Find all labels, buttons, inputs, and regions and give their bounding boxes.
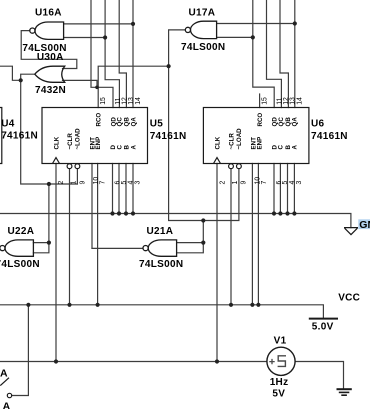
svg-text:~CLR: ~CLR bbox=[67, 133, 74, 150]
NAND gate U21A bbox=[143, 240, 177, 256]
wire QD U5 net vertical bbox=[91, 0, 113, 108]
svg-text:74161N: 74161N bbox=[1, 131, 38, 142]
svg-text:14: 14 bbox=[296, 97, 303, 105]
wire U6 C pin to bus bbox=[279, 164, 281, 214]
voltage source V1 bbox=[267, 347, 295, 375]
svg-text:15: 15 bbox=[261, 97, 268, 105]
wire U5 ~CLR down to VCC rail bbox=[69, 169, 71, 305]
svg-text:1: 1 bbox=[232, 181, 239, 185]
svg-text:A: A bbox=[130, 145, 137, 150]
wire U6 ENT down to VCC rail bbox=[251, 164, 253, 305]
svg-text:VCC: VCC bbox=[338, 293, 360, 304]
svg-text:~LOAD: ~LOAD bbox=[236, 128, 243, 150]
svg-text:ENP: ENP bbox=[95, 137, 102, 150]
wire U30A output down to LOAD net bbox=[21, 74, 78, 184]
svg-text:U22A: U22A bbox=[8, 226, 35, 237]
svg-text:7: 7 bbox=[100, 181, 107, 185]
wire U6 CLK down to V1 line bbox=[216, 164, 218, 362]
NAND gate U22A bbox=[0, 240, 33, 256]
wire U21A inputs branch bbox=[177, 221, 204, 253]
svg-text:GN: GN bbox=[359, 219, 370, 231]
wire QB U5 net vertical bbox=[119, 0, 126, 108]
svg-text:U17A: U17A bbox=[189, 7, 216, 18]
svg-text:U5: U5 bbox=[150, 119, 164, 130]
svg-text:9: 9 bbox=[241, 181, 248, 185]
svg-text:QB: QB bbox=[123, 117, 130, 127]
svg-text:RCO: RCO bbox=[257, 113, 264, 127]
wire U30A input 2 to QD jog bbox=[63, 80, 98, 87]
svg-text:C: C bbox=[278, 145, 285, 150]
svg-text:3: 3 bbox=[134, 181, 141, 185]
wire RCO U6 stub bbox=[259, 94, 261, 108]
counter U5 bbox=[42, 108, 148, 169]
wire QC U6 net vertical bbox=[267, 0, 282, 108]
svg-text:1: 1 bbox=[70, 181, 77, 185]
svg-text:U30A: U30A bbox=[37, 52, 64, 63]
wire U21A output to U5 ENT bbox=[92, 247, 143, 249]
wire U16A output to U30A input 1 bbox=[21, 31, 77, 69]
wire U6 D pin to bus bbox=[273, 164, 275, 214]
svg-text:U4: U4 bbox=[1, 119, 15, 130]
svg-text:U16A: U16A bbox=[35, 7, 62, 18]
svg-text:V1: V1 bbox=[274, 336, 287, 347]
svg-text:74161N: 74161N bbox=[311, 131, 348, 142]
svg-text:74LS00N: 74LS00N bbox=[139, 259, 183, 270]
wire U6 ~LOAD pin drop bbox=[203, 169, 239, 221]
svg-text:QA: QA bbox=[130, 117, 137, 127]
svg-text:5.0V: 5.0V bbox=[312, 321, 334, 332]
wire U5 A pin to bus bbox=[132, 164, 134, 214]
svg-text:U21A: U21A bbox=[147, 226, 174, 237]
wire U17A input 2 bbox=[217, 36, 253, 38]
wire U6 B pin to bus bbox=[287, 164, 289, 214]
wire U5 B pin to bus bbox=[125, 164, 127, 214]
svg-text:74161N: 74161N bbox=[150, 131, 187, 142]
NAND gate U16A bbox=[30, 22, 64, 39]
wire U17A output down bbox=[169, 30, 204, 221]
wire QD U6 net vertical bbox=[253, 0, 274, 108]
svg-text:CLK: CLK bbox=[53, 136, 60, 149]
NAND gate U17A bbox=[185, 21, 216, 38]
wire QA U6 net vertical bbox=[294, 0, 296, 108]
wire U5 C pin to bus bbox=[118, 164, 120, 214]
svg-text:7: 7 bbox=[261, 181, 268, 185]
wire U16A input 2 bbox=[64, 37, 106, 39]
wire U5 CLK down to V1 line bbox=[55, 164, 57, 362]
svg-text:74LS00N: 74LS00N bbox=[0, 259, 40, 270]
wire U17A input 1 bbox=[217, 23, 295, 25]
OR gate U30A bbox=[35, 66, 65, 82]
svg-text:1Hz: 1Hz bbox=[270, 377, 289, 388]
svg-text:RCO: RCO bbox=[96, 113, 103, 127]
wire VCC rail bbox=[0, 305, 323, 318]
svg-text:2: 2 bbox=[219, 181, 226, 185]
ground symbol (bottom right, 3-bar) bbox=[337, 389, 352, 395]
svg-text:74LS00N: 74LS00N bbox=[181, 42, 225, 53]
svg-text:~LOAD: ~LOAD bbox=[75, 128, 82, 150]
svg-text:U6: U6 bbox=[311, 119, 325, 130]
svg-text:9: 9 bbox=[79, 181, 86, 185]
svg-text:CLK: CLK bbox=[214, 136, 221, 149]
svg-text:~CLR: ~CLR bbox=[228, 133, 235, 150]
wire U6 ENP down to VCC rail bbox=[257, 164, 259, 305]
svg-text:2: 2 bbox=[58, 181, 65, 185]
wire ground bus bbox=[0, 214, 351, 228]
wire U5 ~LOAD pin drop bbox=[76, 169, 78, 184]
wire V1 clock line bbox=[0, 361, 267, 363]
ground symbol GND (triangle, right) bbox=[344, 228, 358, 235]
wire U6 A pin to bus bbox=[293, 164, 295, 214]
VCC power symbol bbox=[309, 318, 338, 320]
wire U5 ENP down to VCC rail bbox=[97, 164, 99, 305]
svg-text:3: 3 bbox=[296, 181, 303, 185]
wire U22A inputs branch bbox=[33, 184, 49, 253]
wire QA U5 net vertical bbox=[132, 0, 134, 108]
svg-text:7432N: 7432N bbox=[35, 85, 66, 96]
wire RCO U5 to U17A output net bbox=[98, 66, 168, 107]
svg-text:QA: QA bbox=[292, 117, 299, 127]
wire switch to VCC rail bbox=[12, 305, 29, 396]
wire U6 ~CLR down to VCC rail bbox=[230, 169, 232, 305]
svg-text:B: B bbox=[123, 145, 130, 150]
svg-text:A: A bbox=[3, 400, 11, 409]
wire U5 D pin to bus bbox=[112, 164, 114, 214]
svg-text:A: A bbox=[292, 145, 299, 150]
wire U5 ENT down bbox=[91, 164, 93, 249]
counter U6 bbox=[203, 108, 309, 169]
svg-text:14: 14 bbox=[135, 97, 142, 105]
svg-text:ENP: ENP bbox=[256, 137, 263, 150]
svg-text:A: A bbox=[0, 368, 8, 380]
svg-text:5V: 5V bbox=[272, 389, 285, 400]
counter U4 (partially visible) bbox=[0, 108, 2, 164]
switch J (partially visible, key A) bbox=[0, 378, 11, 398]
svg-text:C: C bbox=[116, 145, 123, 150]
wire V1 to ground bbox=[295, 362, 343, 389]
svg-text:15: 15 bbox=[100, 97, 107, 105]
wire QB U6 net vertical bbox=[280, 0, 288, 108]
node GND label bbox=[358, 219, 370, 231]
wire QC U5 net vertical bbox=[105, 0, 119, 108]
wire U16A input 1 bbox=[64, 23, 133, 25]
wire from left edge to U30A output net bbox=[0, 66, 21, 80]
